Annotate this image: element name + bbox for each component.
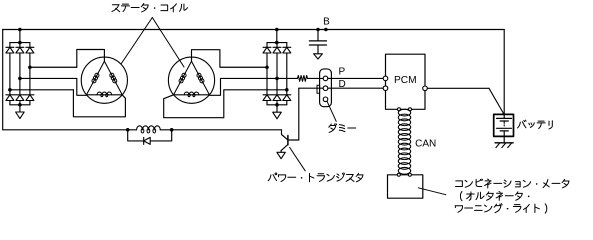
terminal CAN-L of meter: [408, 173, 411, 176]
wire PCM B+ lead: [427, 87, 489, 89]
ground battery chassis: [495, 143, 513, 148]
CAN twisted pair: [398, 109, 410, 174]
wire left rect column 2: [19, 53, 21, 95]
node right rect ground junction: [275, 103, 279, 107]
wire stub D8: [276, 43, 278, 48]
ground capacitor: [314, 54, 323, 59]
wire stator2 top step: [192, 50, 268, 68]
node field left: [126, 128, 130, 132]
wire D line: [299, 87, 386, 89]
wire diagonal to battery: [489, 88, 504, 114]
resistor R1: [298, 76, 308, 82]
PCM box U1: [386, 54, 426, 109]
pin 3 of J1: [323, 97, 328, 102]
wire phase V left: [20, 77, 77, 79]
node B terminal: [324, 28, 328, 32]
wire stub D3: [29, 43, 31, 48]
transistor Q1 power transistor: [281, 130, 299, 153]
node phase U left: [28, 65, 32, 69]
ground right rectifier: [273, 112, 282, 119]
diode D3: [26, 47, 34, 53]
terminal CAN-L of PCM: [409, 108, 412, 111]
wire right rect column 3: [286, 53, 288, 95]
pin D of J1: [323, 86, 328, 91]
wire left frame: [2, 30, 4, 130]
wire stator2 right step: [209, 78, 277, 95]
node left rect bus junction: [18, 41, 22, 45]
ground transistor emitter: [277, 152, 285, 158]
wire top B+ bus: [3, 29, 505, 31]
wire stator1 top step: [77, 50, 105, 68]
wire stub D1: [9, 43, 11, 48]
node right rect bus junction: [275, 41, 279, 45]
diode D11: [273, 95, 281, 101]
wire stator2 bottom route: [164, 90, 287, 118]
wire left rect column 1: [9, 53, 11, 95]
label P: [339, 66, 346, 77]
leader line dummy: [327, 101, 336, 121]
stator coil L1: [81, 57, 127, 103]
wire right rect column 2: [276, 53, 278, 95]
field coil L3: [137, 126, 161, 133]
node phase V right: [275, 77, 279, 81]
label combination meter line3: [455, 204, 546, 213]
label B: [323, 17, 330, 28]
wire right rect lower cathode bar: [263, 94, 291, 96]
wire left rect cathode bus: [10, 42, 30, 44]
wire right drop to battery: [503, 30, 505, 115]
node B junction: [316, 28, 320, 32]
label battery: [518, 120, 553, 129]
wire stator1 bottom route: [73, 90, 125, 117]
label dummy: [329, 124, 356, 133]
diode D4: [6, 95, 14, 101]
terminal D of PCM: [383, 86, 388, 91]
label PCM: [394, 75, 417, 86]
wire stub D11 anode: [276, 101, 278, 105]
wire right rect feed: [276, 30, 278, 43]
svg-text:CAN: CAN: [415, 138, 436, 149]
svg-text:D: D: [339, 79, 346, 90]
node left rect ground junction: [18, 103, 22, 107]
wire right rect cathode bus: [267, 42, 287, 44]
diode D9: [283, 47, 291, 53]
label stator coil: [112, 3, 188, 11]
label combination meter line2: [460, 191, 529, 200]
node phase W left: [8, 88, 12, 92]
wire stub D10 anode: [266, 101, 268, 105]
label D: [339, 79, 346, 90]
wire left rect lower cathode bar: [6, 94, 34, 96]
wire stub D7: [266, 43, 268, 48]
wire phase U left: [30, 66, 77, 68]
wire stub D9: [286, 43, 288, 48]
terminal P of PCM: [383, 76, 388, 81]
svg-text:P: P: [339, 66, 346, 77]
label power transistor: [268, 173, 363, 182]
node phase V left: [18, 77, 22, 81]
leader line power transistor: [290, 147, 306, 170]
leader line meter: [418, 188, 446, 195]
wire bottom field line left: [3, 129, 137, 131]
capacitor C1: [309, 30, 326, 54]
wire stator1 left step: [77, 78, 87, 95]
node right rectifier B+ tap: [275, 28, 279, 32]
pin P of J1: [323, 76, 328, 81]
ground left rectifier: [16, 112, 25, 119]
node phase W right: [285, 88, 289, 92]
diode D6: [26, 95, 34, 101]
wire base to D line: [298, 88, 300, 140]
label CAN: [415, 138, 436, 149]
diode D7: [263, 47, 271, 53]
wire left rect anode bus: [10, 104, 30, 106]
wire to right ground: [276, 105, 278, 112]
stator coil L2: [168, 57, 214, 103]
svg-text:B: B: [323, 17, 330, 28]
diode D5: [16, 95, 24, 101]
wire phase V to resistor: [277, 77, 298, 79]
terminal CAN-H of meter: [397, 173, 400, 176]
wire right rect anode bus: [267, 104, 287, 106]
wire phase W left: [10, 89, 74, 91]
diode D12: [283, 95, 291, 101]
diode D13 flyback: [144, 137, 151, 144]
wire left rect column 3: [29, 53, 31, 95]
wire flyback branch: [128, 130, 172, 141]
diode D1: [6, 47, 14, 53]
diode D8: [273, 47, 281, 53]
node phase U right: [265, 65, 269, 69]
node left rectifier B+ tap: [18, 28, 22, 32]
diode D2: [16, 47, 24, 53]
leader lines stator coil: [121, 18, 184, 68]
svg-text:PCM: PCM: [394, 75, 417, 86]
terminal B of PCM: [423, 86, 428, 91]
wire stub D2: [19, 43, 21, 48]
diode D10: [263, 95, 271, 101]
wire stub D5 anode: [19, 101, 21, 105]
connector J1 dummy: [317, 69, 331, 107]
node field right: [170, 128, 174, 132]
wire to left ground: [19, 105, 21, 112]
wire P line: [308, 77, 386, 79]
wire field line mid: [160, 129, 281, 131]
terminal CAN-H of PCM: [398, 108, 401, 111]
wire left rect feed: [19, 30, 21, 43]
combination meter box: [388, 175, 423, 198]
wire stub D4 anode: [9, 101, 11, 105]
label combination meter line1: [456, 179, 569, 188]
battery BT1: [494, 114, 514, 142]
wire right rect column 1: [266, 53, 268, 95]
wire stub D6 anode: [29, 101, 31, 105]
wire stub D12 anode: [286, 101, 288, 105]
